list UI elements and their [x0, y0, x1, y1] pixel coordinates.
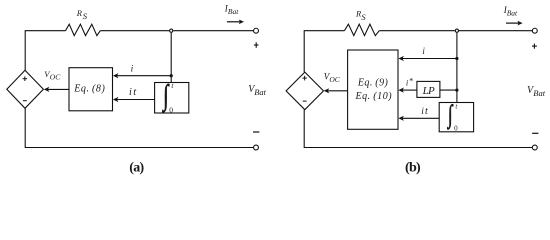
svg-text:R: R — [76, 8, 83, 18]
dependent source VOC (b) diamond — [286, 72, 323, 110]
box Eq.(9) Eq.(10) (b) — [348, 50, 398, 129]
wire: (b) node vertical to integrator — [456, 33, 458, 103]
svg-text:Eq. (8): Eq. (8) — [73, 84, 105, 95]
wire: (b) node to + terminal — [459, 30, 532, 32]
svg-text:∫: ∫ — [162, 80, 170, 113]
svg-text:t: t — [425, 106, 428, 117]
label - inside diamond (a) — [23, 100, 27, 102]
svg-text:Bat: Bat — [533, 88, 545, 98]
node circle (a) top junction — [170, 29, 173, 32]
box Eq.(8) (a) — [69, 68, 113, 111]
svg-text:LP: LP — [422, 85, 435, 97]
svg-text:0: 0 — [454, 124, 458, 132]
terminal: (b) negative — [532, 145, 537, 150]
dependent source VOC (a) diamond — [7, 70, 44, 108]
wire: (b) VOC control line from Eq.(9)(10) — [327, 90, 347, 92]
wire: (a) i signal into Eq.(8) — [117, 75, 172, 77]
label - terminal (a) — [253, 131, 259, 133]
svg-text:S: S — [83, 11, 88, 21]
label + inside diamond (b) — [302, 76, 307, 81]
svg-text:0: 0 — [169, 105, 173, 114]
arrowhead: (b) it input — [398, 116, 404, 121]
label - inside diamond (b) — [303, 100, 307, 102]
svg-text:∫: ∫ — [446, 100, 453, 130]
svg-text:t: t — [133, 87, 137, 98]
arrow: (a) IBat current — [227, 21, 240, 23]
resistor RS (b) — [344, 24, 379, 35]
wire: (a) node to + terminal — [173, 30, 253, 32]
label + terminal (a) — [254, 42, 259, 48]
svg-text:Bat: Bat — [507, 8, 518, 17]
arrowhead: (a) VOC control — [44, 87, 50, 92]
wire: (a) node vertical to integrator — [170, 33, 172, 83]
integral symbol (a) — [162, 80, 170, 113]
terminal: (a) negative — [254, 145, 259, 150]
arrow: (b) IBat current — [506, 22, 519, 24]
svg-text:Eq. (10): Eq. (10) — [354, 91, 392, 102]
svg-text:i: i — [131, 65, 134, 75]
junction dot (b) LP tap — [455, 89, 458, 92]
svg-text:*: * — [409, 76, 413, 85]
wire: (b) vertical tap to LP filter — [440, 89, 457, 91]
wire: (b) it signal integrator to Eq box — [402, 117, 439, 119]
junction dot (a) i tap — [170, 74, 173, 77]
label + terminal (b) — [532, 44, 537, 49]
arrowhead: (b) VOC control — [324, 88, 330, 93]
arrowhead: (a) it input — [113, 97, 119, 102]
arrowhead: (b) i input — [398, 56, 404, 61]
wire: (b) i signal into Eq box — [402, 58, 457, 60]
integral symbol (b) — [446, 100, 453, 130]
integrator box (b) — [439, 103, 473, 132]
svg-text:OC: OC — [329, 75, 340, 84]
wire: (b) bottom rail — [304, 110, 532, 148]
integrator box (a) — [155, 83, 189, 114]
svg-text:i: i — [421, 107, 424, 117]
wire: (a) VOC control line from Eq.(8) — [48, 88, 70, 90]
svg-text:i: i — [422, 46, 425, 56]
arrowhead: (a) i input — [113, 73, 119, 78]
wire: (a) bottom rail — [25, 108, 253, 147]
svg-text:Bat: Bat — [254, 87, 266, 97]
svg-text:(b): (b) — [405, 161, 421, 176]
box LP filter (b) — [417, 81, 440, 97]
terminal: (a) positive — [254, 28, 259, 33]
wire: (b) i* signal LP to Eq box — [402, 89, 417, 91]
wire: (a) it signal integrator to Eq.(8) — [117, 99, 155, 101]
svg-text:Bat: Bat — [228, 7, 239, 16]
wire: (a) top-left corner and left vertical — [25, 31, 65, 71]
wire: (a) resistor to node — [100, 30, 169, 32]
svg-text:S: S — [361, 12, 366, 22]
wire: (b) resistor to node — [379, 30, 455, 32]
label + inside diamond (a) — [23, 76, 28, 81]
label - terminal (b) — [532, 132, 538, 134]
svg-text:Eq. (9): Eq. (9) — [357, 77, 389, 88]
svg-text:i: i — [129, 87, 132, 98]
node circle (b) top junction — [455, 29, 458, 32]
resistor RS (a) — [66, 24, 101, 35]
arrowhead: (b) i* input — [398, 88, 404, 93]
wire: (b) top-left corner and left vertical — [304, 31, 344, 72]
terminal: (b) positive — [532, 28, 537, 33]
svg-text:(a): (a) — [129, 161, 144, 176]
svg-text:OC: OC — [50, 73, 61, 82]
junction dot (b) i tap — [455, 57, 458, 60]
